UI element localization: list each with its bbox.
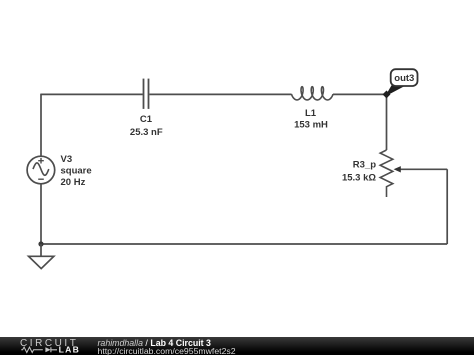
svg-text:C1: C1 (140, 114, 153, 125)
label square (61, 166, 92, 177)
wire bottom horizontal (41, 243, 447, 245)
label C1 (140, 114, 153, 125)
wire C1 right plate to L1 (149, 93, 291, 95)
voltage source V3 (27, 156, 55, 184)
svg-text:R3_p: R3_p (353, 159, 376, 170)
wire top-left horizontal (V3 top to C1 left plate) (41, 93, 143, 95)
wire right vertical (wiper down to bottom wire) (446, 169, 448, 244)
svg-text:V3: V3 (61, 154, 73, 165)
node out3 label box (391, 69, 418, 86)
ground (29, 244, 54, 269)
label 153 mH (294, 120, 328, 131)
svg-text:out3: out3 (394, 73, 414, 84)
label 25.3 nF (130, 127, 163, 138)
svg-text:LAB: LAB (59, 345, 81, 355)
svg-text:15.3 kΩ: 15.3 kΩ (342, 172, 376, 183)
svg-text:153 mH: 153 mH (294, 120, 328, 131)
svg-text:25.3 nF: 25.3 nF (130, 127, 163, 138)
footer title line (98, 338, 211, 348)
inductor L1 (292, 87, 334, 100)
wire node down to R3_p top (386, 94, 388, 150)
potentiometer wiper arrow (394, 166, 448, 172)
svg-text:20 Hz: 20 Hz (61, 177, 86, 188)
CircuitLab logo (0, 337, 95, 355)
svg-text:square: square (61, 166, 92, 177)
wire L1 to node out3 (333, 93, 387, 95)
node out3 junction diamond (383, 90, 391, 98)
wire V3 bottom to ground junction (40, 184, 42, 244)
capacitor C1 (144, 79, 149, 109)
label 15.3 kOhm (342, 172, 376, 183)
svg-text:L1: L1 (305, 108, 317, 119)
footer bar (0, 337, 474, 355)
wire left vertical upper (top corner down to V3 top) (40, 94, 42, 157)
label R3_p (353, 159, 376, 170)
potentiometer R3_p zigzag (380, 150, 393, 197)
footer url line (98, 346, 236, 356)
label 20 Hz (61, 177, 86, 188)
label L1 (305, 108, 317, 119)
junction dot (38, 241, 43, 246)
label V3 (61, 154, 73, 165)
node out3 flag pointer (386, 86, 404, 96)
